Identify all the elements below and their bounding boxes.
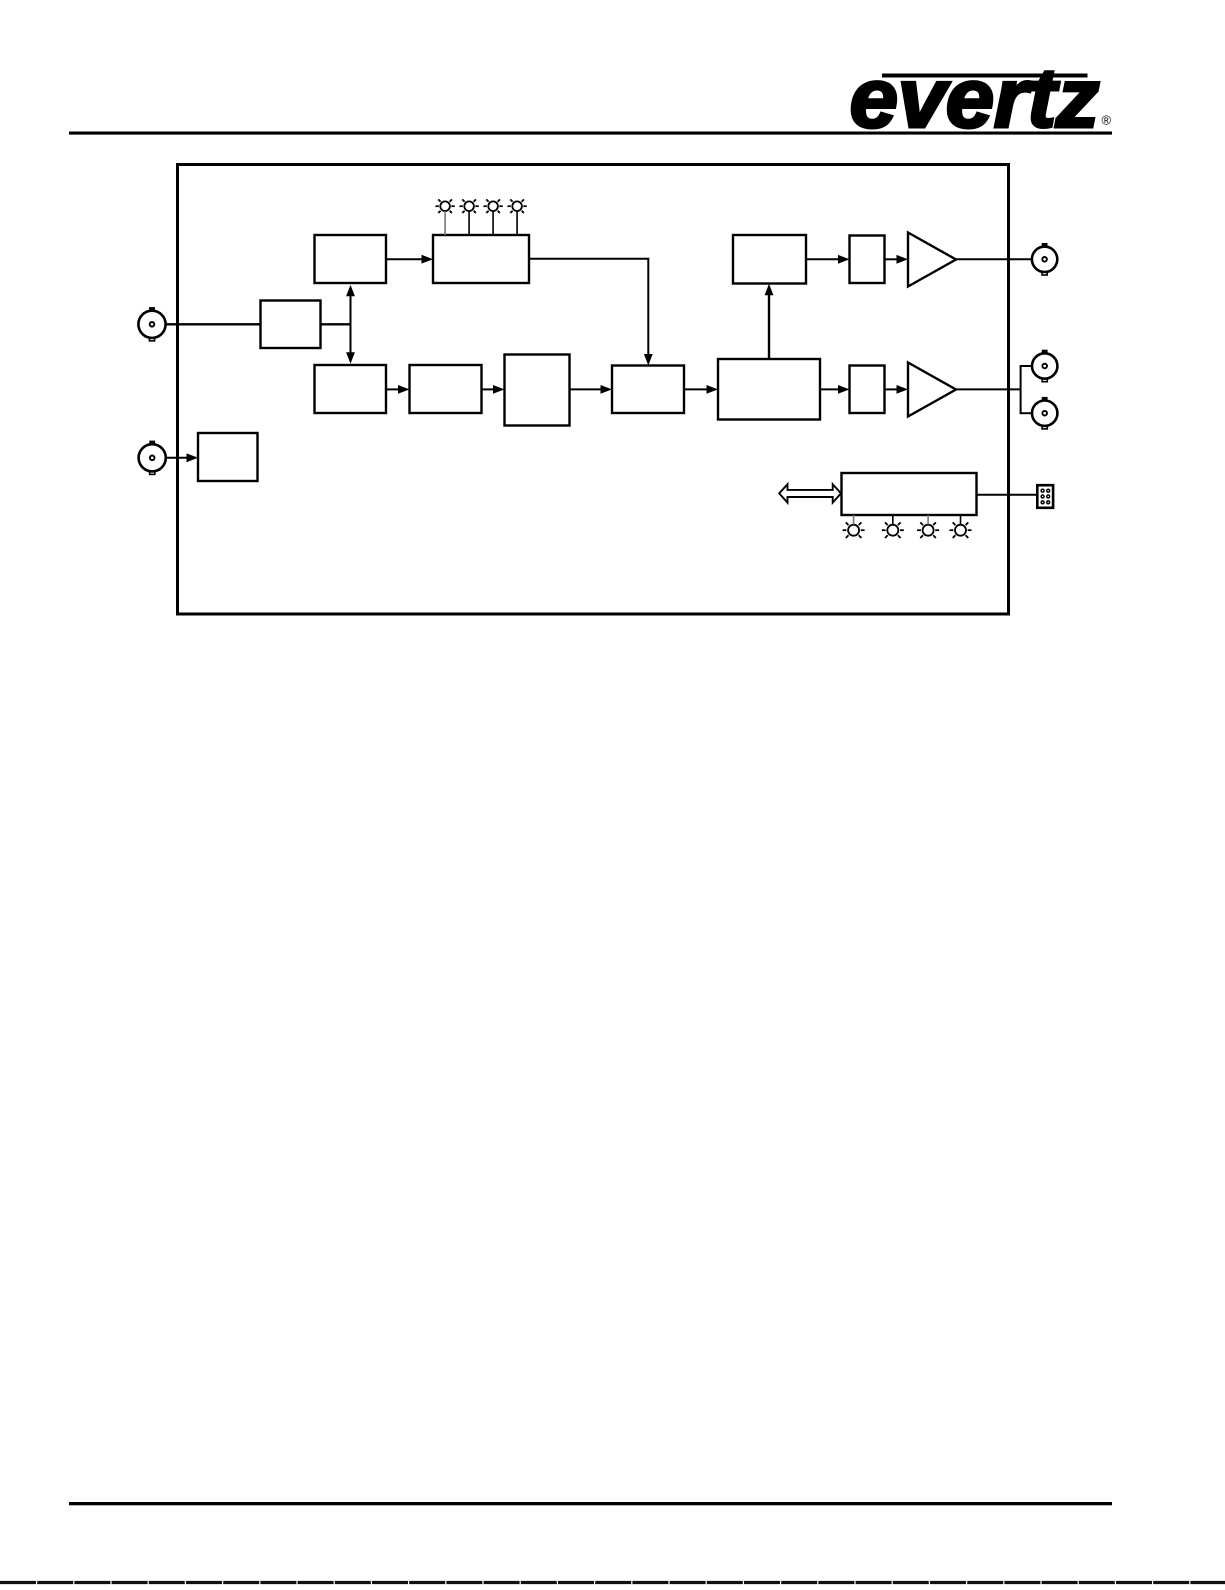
wire: elbow arrow into block B7 top (644, 352, 653, 366)
LED D5 (843, 522, 865, 538)
wire: block B8 up to block B4 (arrow up) (765, 284, 774, 359)
diagram outer frame (178, 165, 1009, 615)
block B8 (output processor) (718, 359, 820, 420)
BNC J2 (left input 2) (139, 441, 166, 475)
wire: LED D6 stem (892, 515, 894, 525)
wire: output split vertical (1020, 366, 1022, 413)
BNC J5 (output 2b) (1032, 397, 1057, 429)
wire: block B12 to header P1 (977, 494, 1038, 496)
wire: LED D8 stem (960, 515, 962, 525)
wire: amp A2 output trunk (956, 388, 1021, 390)
BNC J3 (output 1) (1032, 243, 1057, 275)
block B4 (733, 235, 806, 284)
wire: B8 to B9 (arrow) (820, 385, 850, 394)
LED D2 (460, 199, 479, 213)
wire: amp A1 to BNC J3 (956, 258, 1032, 260)
wire: B4 to B10 (arrow) (806, 255, 850, 264)
BNC J4 (output 2a) (1032, 350, 1057, 382)
wire: B10 to amp A1 (arrow) (885, 255, 909, 264)
wire: split to BNC J5 (1020, 412, 1033, 414)
wire: bidirectional control bus (hollow double arrow) (779, 484, 841, 502)
wire: LED D3 stem (492, 211, 494, 235)
block B9 (driver) (850, 366, 885, 414)
LED D3 (484, 199, 503, 213)
op-amp A2 (output amplifier 2) (908, 363, 956, 417)
wire: LED D5 stem (853, 515, 855, 525)
wire: LED D2 stem (468, 211, 470, 235)
LED D1 (436, 199, 455, 213)
wire: B6a to B7 (arrow) (570, 385, 613, 394)
block B1 (input buffer) (261, 301, 321, 349)
wire: block B2 to block B3 (arrow) (386, 255, 433, 264)
wire: LED D1 stem (444, 211, 446, 235)
block B11 (reference input) (198, 433, 258, 481)
block B12 (card controller) (842, 473, 977, 515)
wire: B9 to amp A2 (arrow) (885, 385, 909, 394)
footer rule line (69, 1502, 1112, 1505)
block B3 (status logic) (433, 235, 529, 283)
page bottom edge line (0, 1581, 1225, 1584)
wire: LED D7 stem (927, 515, 929, 525)
block B2 (315, 235, 387, 283)
block B10 (driver) (850, 236, 885, 284)
LED D6 (882, 522, 904, 538)
BNC J1 (left input 1) (138, 307, 165, 341)
wire: LED D4 stem (516, 211, 518, 235)
LED D4 (508, 199, 527, 213)
op-amp A1 (output amplifier 1) (908, 233, 956, 287)
block B6 (410, 365, 482, 413)
wire: BNC J1 to block B1 (166, 323, 262, 325)
wire: block B3 to block B7 (elbow) (529, 259, 648, 353)
block B5 (315, 365, 387, 413)
wire: B5 to B6 (arrow) (386, 385, 410, 394)
wire: BNC J2 to block B11 (arrow) (166, 453, 198, 462)
wire: splitter up to block B2 (arrow up) (346, 285, 355, 325)
connector P1 (2x3 pin header) (1037, 485, 1053, 508)
svg-text:®: ® (1102, 113, 1112, 128)
wire: B6 to B6a (arrow) (482, 385, 505, 394)
wire: splitter down to block B5 (arrow down) (346, 324, 355, 364)
wire: block B1 to splitter node (321, 323, 351, 325)
Evertz logo (850, 51, 1112, 145)
LED D8 (950, 522, 972, 538)
LED D7 (917, 522, 939, 538)
block B6a (FIFO) (505, 355, 570, 426)
header rule line (69, 132, 1112, 135)
block B7 (612, 366, 684, 414)
wire: split to BNC J4 (1020, 365, 1033, 367)
wire: B7 to B8 (arrow) (684, 385, 718, 394)
